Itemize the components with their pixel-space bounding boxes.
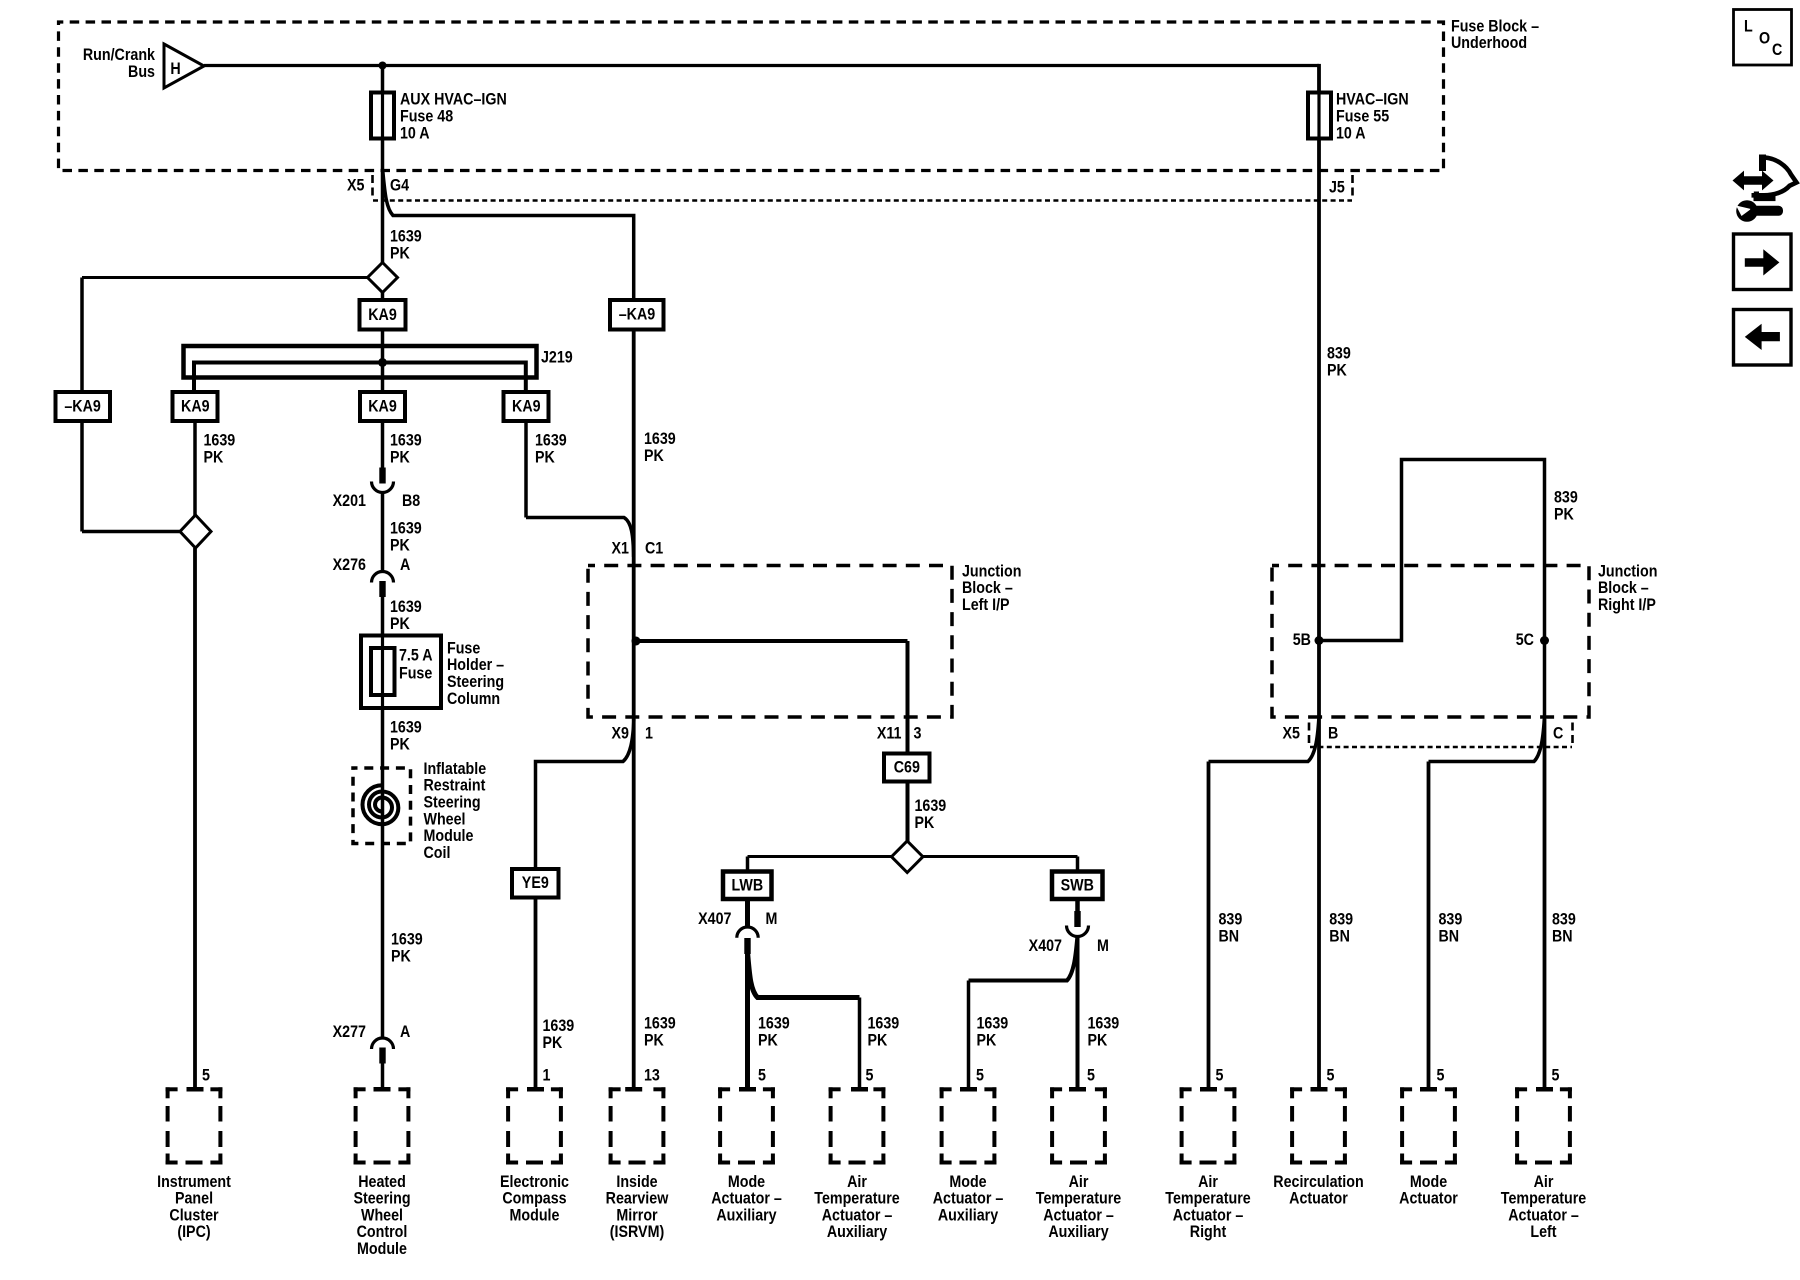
svg-text:Temperature: Temperature: [1165, 1190, 1251, 1208]
svg-text:PK: PK: [1087, 1031, 1107, 1049]
svg-text:X277: X277: [333, 1023, 367, 1041]
svg-text:PK: PK: [390, 536, 410, 554]
svg-text:–KA9: –KA9: [619, 306, 656, 324]
svg-text:Compass: Compass: [502, 1190, 566, 1208]
svg-text:X5: X5: [347, 176, 365, 194]
svg-text:X407: X407: [698, 910, 732, 928]
svg-text:X1: X1: [612, 539, 630, 557]
svg-text:1639: 1639: [390, 598, 422, 616]
svg-text:1639: 1639: [542, 1017, 574, 1035]
svg-text:1639: 1639: [977, 1014, 1009, 1032]
svg-text:5: 5: [866, 1066, 874, 1084]
svg-text:M: M: [766, 910, 778, 928]
svg-text:O: O: [1759, 29, 1770, 47]
svg-text:PK: PK: [390, 244, 410, 262]
svg-text:1639: 1639: [644, 430, 676, 448]
svg-text:Actuator –: Actuator –: [711, 1190, 782, 1208]
svg-text:X201: X201: [333, 492, 367, 510]
svg-text:Run/Crank: Run/Crank: [83, 46, 155, 64]
svg-text:Bus: Bus: [128, 63, 155, 81]
svg-text:PK: PK: [758, 1031, 778, 1049]
svg-text:(IPC): (IPC): [177, 1223, 210, 1241]
svg-text:7.5 A: 7.5 A: [399, 646, 433, 664]
svg-text:Inflatable: Inflatable: [424, 760, 487, 778]
svg-text:1639: 1639: [390, 431, 422, 449]
svg-text:(ISRVM): (ISRVM): [610, 1223, 664, 1241]
svg-text:1639: 1639: [391, 930, 423, 948]
svg-text:Underhood: Underhood: [1451, 34, 1527, 52]
svg-text:X5: X5: [1283, 724, 1301, 742]
svg-text:PK: PK: [390, 448, 410, 466]
svg-text:YE9: YE9: [522, 874, 549, 892]
svg-text:5: 5: [1087, 1066, 1095, 1084]
svg-text:PK: PK: [644, 447, 664, 465]
svg-text:5: 5: [202, 1066, 210, 1084]
svg-text:J219: J219: [541, 348, 573, 366]
svg-text:1639: 1639: [535, 431, 567, 449]
svg-text:Instrument: Instrument: [157, 1173, 231, 1191]
svg-text:PK: PK: [390, 735, 410, 753]
svg-text:839: 839: [1552, 910, 1576, 928]
svg-text:1: 1: [645, 724, 653, 742]
svg-text:Coil: Coil: [424, 844, 451, 862]
svg-text:Left: Left: [1530, 1223, 1557, 1241]
svg-text:Electronic: Electronic: [500, 1173, 569, 1191]
svg-text:X276: X276: [333, 556, 367, 574]
svg-text:BN: BN: [1439, 927, 1460, 945]
svg-text:Auxiliary: Auxiliary: [938, 1206, 999, 1224]
svg-text:Actuator –: Actuator –: [1173, 1206, 1244, 1224]
svg-text:Fuse 48: Fuse 48: [400, 107, 453, 125]
svg-text:839: 839: [1327, 344, 1351, 362]
svg-text:PK: PK: [914, 814, 934, 832]
svg-text:Temperature: Temperature: [814, 1190, 900, 1208]
svg-text:Block –: Block –: [1598, 579, 1649, 597]
svg-text:B: B: [1328, 724, 1338, 742]
svg-text:PK: PK: [390, 615, 410, 633]
svg-text:PK: PK: [391, 947, 411, 965]
svg-text:Steering: Steering: [424, 793, 481, 811]
svg-text:5: 5: [1215, 1066, 1223, 1084]
svg-text:Module: Module: [424, 827, 474, 845]
svg-text:Left I/P: Left I/P: [962, 596, 1010, 614]
svg-text:Junction: Junction: [1598, 562, 1657, 580]
svg-text:Actuator –: Actuator –: [1508, 1206, 1579, 1224]
svg-text:Wheel: Wheel: [361, 1206, 403, 1224]
svg-text:Recirculation: Recirculation: [1273, 1173, 1363, 1191]
svg-text:1639: 1639: [390, 718, 422, 736]
svg-text:AUX HVAC–IGN: AUX HVAC–IGN: [400, 90, 507, 108]
svg-text:1639: 1639: [868, 1014, 900, 1032]
svg-text:A: A: [400, 556, 410, 574]
svg-text:Inside: Inside: [616, 1173, 657, 1191]
svg-text:Block –: Block –: [962, 579, 1013, 597]
svg-text:Actuator –: Actuator –: [1043, 1206, 1114, 1224]
svg-text:C1: C1: [645, 539, 663, 557]
svg-text:Control: Control: [357, 1223, 408, 1241]
svg-text:5: 5: [976, 1066, 984, 1084]
svg-text:Fuse: Fuse: [399, 664, 433, 682]
svg-text:Right: Right: [1190, 1223, 1227, 1241]
svg-text:M: M: [1097, 937, 1109, 955]
svg-text:5: 5: [1437, 1066, 1445, 1084]
svg-text:Module: Module: [510, 1206, 560, 1224]
svg-text:Mirror: Mirror: [616, 1206, 657, 1224]
svg-text:839: 839: [1219, 910, 1243, 928]
svg-text:BN: BN: [1219, 927, 1240, 945]
svg-text:KA9: KA9: [368, 306, 397, 324]
svg-text:PK: PK: [868, 1031, 888, 1049]
svg-text:B8: B8: [402, 492, 420, 510]
svg-text:Wheel: Wheel: [424, 810, 466, 828]
svg-text:5C: 5C: [1516, 631, 1534, 649]
svg-text:Air: Air: [1534, 1173, 1554, 1191]
svg-text:PK: PK: [203, 448, 223, 466]
svg-text:BN: BN: [1552, 927, 1573, 945]
svg-text:Air: Air: [847, 1173, 867, 1191]
svg-text:J5: J5: [1329, 178, 1345, 196]
svg-text:H: H: [170, 60, 180, 78]
svg-text:Air: Air: [1198, 1173, 1218, 1191]
svg-text:Fuse Block –: Fuse Block –: [1451, 17, 1539, 35]
svg-text:Actuator –: Actuator –: [822, 1206, 893, 1224]
svg-text:Mode: Mode: [1410, 1173, 1448, 1191]
svg-text:BN: BN: [1329, 927, 1350, 945]
svg-text:Air: Air: [1069, 1173, 1089, 1191]
svg-text:A: A: [400, 1023, 410, 1041]
svg-text:C: C: [1772, 41, 1782, 59]
svg-text:Auxiliary: Auxiliary: [827, 1223, 888, 1241]
svg-text:1: 1: [542, 1066, 550, 1084]
svg-text:KA9: KA9: [512, 397, 541, 415]
svg-text:PK: PK: [1327, 361, 1347, 379]
svg-text:C69: C69: [894, 759, 920, 777]
svg-text:LWB: LWB: [731, 876, 763, 894]
svg-text:KA9: KA9: [181, 397, 210, 415]
svg-text:3: 3: [914, 724, 922, 742]
svg-text:X11: X11: [877, 724, 902, 742]
svg-text:G4: G4: [390, 176, 409, 194]
svg-text:Temperature: Temperature: [1501, 1190, 1587, 1208]
svg-text:10 A: 10 A: [1336, 124, 1366, 142]
svg-text:PK: PK: [542, 1034, 562, 1052]
svg-text:Actuator: Actuator: [1399, 1190, 1458, 1208]
svg-text:Temperature: Temperature: [1036, 1190, 1122, 1208]
svg-text:HVAC–IGN: HVAC–IGN: [1336, 90, 1409, 108]
svg-text:Rearview: Rearview: [606, 1190, 669, 1208]
svg-text:5B: 5B: [1293, 631, 1311, 649]
svg-text:Right I/P: Right I/P: [1598, 596, 1656, 614]
svg-text:Cluster: Cluster: [169, 1206, 218, 1224]
svg-text:Fuse 55: Fuse 55: [1336, 107, 1389, 125]
svg-text:Panel: Panel: [175, 1190, 213, 1208]
svg-text:Module: Module: [357, 1240, 407, 1258]
svg-text:1639: 1639: [203, 431, 235, 449]
svg-text:Mode: Mode: [728, 1173, 766, 1191]
svg-text:PK: PK: [1554, 505, 1574, 523]
svg-text:SWB: SWB: [1061, 876, 1094, 894]
svg-text:1639: 1639: [1087, 1014, 1119, 1032]
svg-text:C: C: [1553, 724, 1563, 742]
svg-text:–KA9: –KA9: [64, 397, 101, 415]
svg-text:PK: PK: [977, 1031, 997, 1049]
svg-text:1639: 1639: [644, 1014, 676, 1032]
svg-text:Auxiliary: Auxiliary: [716, 1206, 777, 1224]
svg-text:Actuator: Actuator: [1289, 1190, 1348, 1208]
svg-text:10 A: 10 A: [400, 124, 430, 142]
svg-text:Steering: Steering: [447, 673, 504, 691]
svg-text:Junction: Junction: [962, 562, 1021, 580]
svg-text:1639: 1639: [914, 797, 946, 815]
svg-text:Auxiliary: Auxiliary: [1048, 1223, 1109, 1241]
svg-text:5: 5: [1551, 1066, 1559, 1084]
svg-text:1639: 1639: [390, 227, 422, 245]
svg-text:X9: X9: [612, 724, 630, 742]
svg-text:X407: X407: [1029, 937, 1063, 955]
svg-text:Steering: Steering: [353, 1190, 410, 1208]
svg-text:L: L: [1744, 17, 1753, 35]
svg-text:839: 839: [1554, 488, 1578, 506]
svg-text:1639: 1639: [758, 1014, 790, 1032]
svg-text:Actuator –: Actuator –: [933, 1190, 1004, 1208]
svg-text:Heated: Heated: [358, 1173, 406, 1191]
svg-text:5: 5: [758, 1066, 766, 1084]
svg-text:Fuse: Fuse: [447, 639, 481, 657]
svg-text:Mode: Mode: [949, 1173, 987, 1191]
svg-text:KA9: KA9: [368, 397, 397, 415]
svg-text:5: 5: [1327, 1066, 1335, 1084]
svg-text:PK: PK: [535, 448, 555, 466]
svg-text:13: 13: [644, 1066, 660, 1084]
svg-text:839: 839: [1329, 910, 1353, 928]
svg-text:1639: 1639: [390, 519, 422, 537]
svg-text:Restraint: Restraint: [424, 777, 487, 795]
svg-text:Holder –: Holder –: [447, 656, 504, 674]
svg-text:839: 839: [1439, 910, 1463, 928]
svg-text:PK: PK: [644, 1031, 664, 1049]
svg-text:Column: Column: [447, 690, 500, 708]
